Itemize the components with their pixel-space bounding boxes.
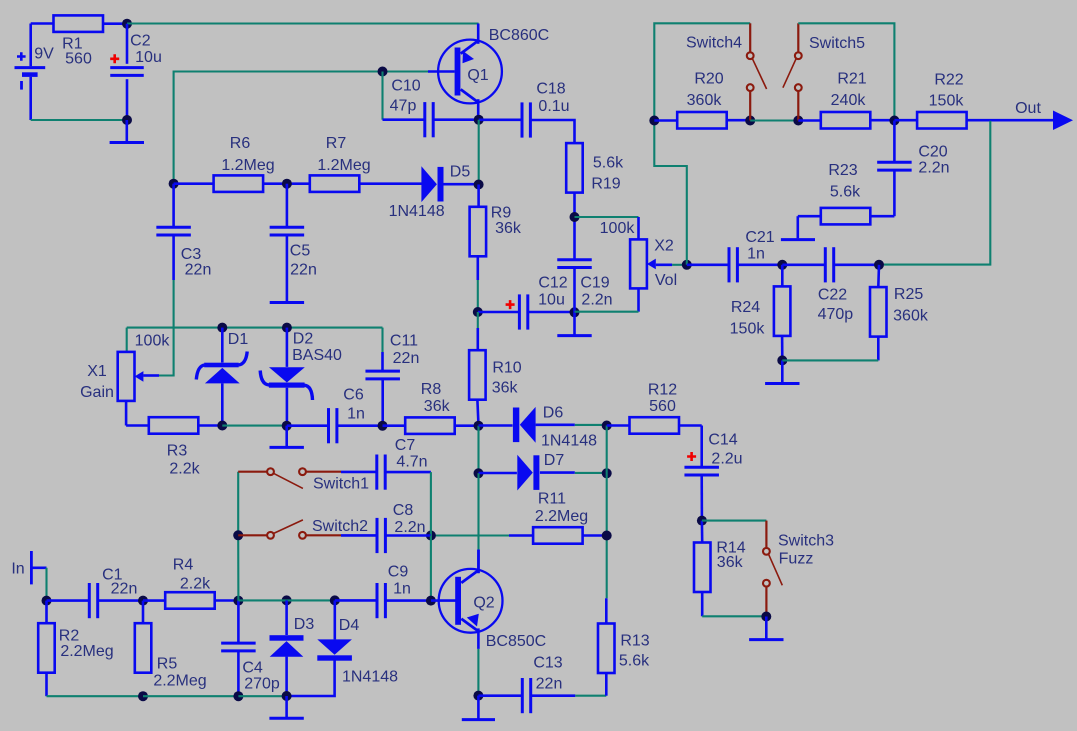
wire R9 to C12 node	[476, 255, 479, 312]
node C2-bottom junction	[122, 115, 132, 125]
wire supply rail to Q1 emitter	[127, 22, 479, 24]
svg-text:R20: R20	[694, 71, 723, 88]
svg-text:150k: 150k	[929, 93, 965, 110]
node D6/R12 junction	[602, 421, 612, 431]
wire node to R21	[798, 119, 821, 122]
resistor R25	[870, 265, 929, 337]
resistor R14	[694, 521, 746, 592]
wire R12 to C14	[679, 426, 702, 468]
ground under D3	[269, 696, 303, 718]
svg-text:C12: C12	[538, 275, 567, 292]
node R9/R10/C12 junction	[473, 307, 483, 317]
wire battery top to R1	[31, 22, 54, 25]
svg-text:R22: R22	[934, 71, 963, 88]
svg-text:2.2Meg: 2.2Meg	[535, 508, 588, 525]
svg-text:Out: Out	[1015, 100, 1041, 117]
wire R4 to C4 node	[215, 599, 238, 602]
node D7-left junction	[474, 468, 484, 478]
svg-text:Switch4: Switch4	[686, 35, 742, 52]
wire C22 to R25 node	[834, 263, 879, 266]
wire R3 to D1 node	[199, 424, 223, 427]
svg-text:R6: R6	[230, 135, 251, 152]
svg-text:Vol: Vol	[655, 272, 677, 289]
wire D6-node down	[477, 426, 479, 474]
ground under Switch3	[749, 617, 783, 640]
capacitor C2	[110, 24, 162, 120]
capacitor C7	[377, 437, 428, 490]
node R19/C19 junction	[570, 212, 580, 222]
wire node to R20	[654, 119, 677, 122]
wire to C12	[478, 311, 520, 314]
svg-text:2.2k: 2.2k	[169, 461, 200, 478]
svg-text:1N4148: 1N4148	[541, 433, 597, 450]
node D2-bottom junction	[282, 421, 292, 431]
wire R21 to out node	[870, 119, 894, 122]
wire rail C4 to D3	[238, 695, 286, 697]
svg-text:360k: 360k	[893, 307, 929, 324]
wire to C10 left plate	[383, 118, 425, 121]
wire R1 to node C2 top	[103, 22, 127, 25]
svg-text:X1: X1	[87, 363, 107, 380]
svg-text:100k: 100k	[135, 333, 171, 350]
svg-text:C20: C20	[918, 144, 947, 161]
resistor R19	[566, 143, 624, 193]
node In/C1/R2 junction	[42, 596, 52, 606]
svg-text:R25: R25	[894, 286, 923, 303]
svg-text:470p: 470p	[818, 306, 854, 323]
svg-text:240k: 240k	[831, 92, 867, 109]
diode D3 1N4148	[270, 600, 315, 696]
svg-text:2.2Meg: 2.2Meg	[153, 673, 206, 690]
node Switch5-bottom junction	[793, 116, 803, 126]
svg-text:10u: 10u	[538, 292, 565, 309]
svg-text:BC850C: BC850C	[486, 633, 546, 650]
resistor R12	[607, 382, 679, 434]
wire R8 to D6 node	[455, 424, 479, 427]
capacitor C6	[329, 387, 365, 444]
switch Switch2	[238, 518, 368, 539]
wire R7 to D5	[359, 182, 421, 185]
svg-text:C21: C21	[745, 229, 774, 246]
wire R20 to switch node	[727, 119, 751, 122]
resistor R23	[821, 162, 871, 224]
wire switch1 to C7	[341, 471, 376, 474]
resistor R7	[310, 135, 371, 192]
node Switch4-bottom junction	[745, 116, 755, 126]
wire D5 to node	[444, 183, 479, 186]
diode D7 1N4148	[479, 452, 575, 491]
node C1/R4/R5 junction	[138, 596, 148, 606]
svg-text:2.2u: 2.2u	[711, 451, 742, 468]
wire D1 node to D2 node	[222, 425, 286, 427]
capacitor C19	[557, 217, 612, 312]
svg-text:Fuzz: Fuzz	[779, 551, 814, 568]
svg-text:X2: X2	[654, 238, 674, 255]
ground under C19 node	[557, 312, 591, 335]
svg-text:22n: 22n	[185, 262, 212, 279]
resistor R4	[143, 557, 215, 609]
wire R14 bottom to switch3 node	[702, 592, 766, 617]
svg-text:R19: R19	[591, 176, 620, 193]
svg-text:D6: D6	[543, 405, 564, 422]
svg-text:BAS40: BAS40	[292, 347, 342, 364]
capacitor C12	[519, 275, 567, 330]
svg-text:360k: 360k	[687, 92, 723, 109]
node Q2-emitter junction	[473, 691, 483, 701]
svg-text:5.6k: 5.6k	[593, 155, 624, 172]
node X2 wiper junction	[682, 260, 692, 270]
switch Switch1	[238, 468, 369, 492]
svg-text:36k: 36k	[424, 398, 451, 415]
capacitor C1	[89, 567, 137, 619]
resistor R22	[894, 71, 966, 128]
capacitor C8	[377, 502, 426, 553]
svg-text:R8: R8	[421, 381, 442, 398]
node C19-bottom junction	[570, 307, 580, 317]
node C22/R25 junction	[874, 260, 884, 270]
wire C1 to R4 node	[98, 599, 143, 602]
wire Out to feedback net	[884, 121, 990, 265]
svg-text:36k: 36k	[492, 380, 519, 397]
C14 polarity +	[687, 452, 696, 461]
wire node to C1	[47, 599, 89, 602]
svg-text:1n: 1n	[347, 406, 365, 423]
potentiometer X2 100k Vol	[600, 220, 677, 289]
schottky diode D2 BAS40	[260, 328, 342, 426]
wire D4 node to C9	[335, 599, 377, 602]
svg-text:5.6k: 5.6k	[830, 184, 861, 201]
wire R2 to bottom rail	[47, 673, 144, 696]
node C2-top junction	[122, 19, 132, 29]
wire C3 to X1 wiper	[159, 235, 174, 376]
wire C8 to node	[386, 534, 431, 537]
wire switch5 top rail	[798, 23, 894, 120]
svg-text:Switch2: Switch2	[312, 518, 368, 535]
wire In down to C1 node	[45, 568, 47, 601]
node Switch2-left junction	[233, 530, 243, 540]
node D1-bottom junction	[217, 421, 227, 431]
input port In	[11, 551, 46, 584]
wire vol node to C21	[687, 263, 729, 266]
resistor R13	[598, 598, 650, 695]
svg-text:R5: R5	[157, 656, 178, 673]
svg-text:Switch1: Switch1	[313, 476, 369, 493]
svg-text:C8: C8	[393, 502, 414, 519]
ground under C5	[270, 235, 304, 303]
capacitor C14	[684, 432, 742, 476]
wire C18 to R19	[530, 120, 574, 143]
capacitor C9	[377, 564, 411, 619]
ground under R23	[781, 238, 815, 241]
wire D6 to R12 node	[575, 424, 607, 426]
svg-text:C6: C6	[343, 387, 364, 404]
node base-net / R6 junction	[169, 179, 179, 189]
svg-text:2.2Meg: 2.2Meg	[60, 643, 113, 660]
node R4/C4 junction	[233, 596, 243, 606]
C2 polarity +	[110, 54, 119, 63]
wire switch4 to switch5 node	[750, 119, 798, 121]
node C14/R14 junction	[697, 516, 707, 526]
svg-text:150k: 150k	[730, 321, 766, 338]
node C21/R24/C22 junction	[777, 260, 787, 270]
wire R20 node loop	[654, 23, 750, 120]
wire X2 wiper to vol node	[656, 263, 687, 266]
wire R23 to ground	[798, 216, 821, 238]
svg-text:1.2Meg: 1.2Meg	[317, 157, 370, 174]
svg-text:1n: 1n	[393, 581, 411, 598]
wire R24 to ground node	[781, 335, 784, 360]
potentiometer X1 100k Gain	[80, 328, 170, 401]
node Q1 collector junction	[474, 115, 484, 125]
transistor Q1 BC860C	[428, 24, 549, 120]
wire vol node up to R20 node	[654, 121, 687, 265]
wire R6 to R7	[263, 182, 310, 185]
ground under R24	[765, 360, 799, 383]
node D3-top junction	[282, 595, 292, 605]
wire C21 to R24 node	[738, 263, 783, 266]
svg-text:2.2k: 2.2k	[180, 576, 211, 593]
diode D6 1N4148	[479, 405, 598, 450]
capacitor C18	[522, 81, 570, 138]
svg-text:C5: C5	[290, 243, 311, 260]
svg-text:R13: R13	[620, 633, 649, 650]
resistor R24	[730, 265, 791, 338]
wire node to C22	[782, 263, 825, 266]
svg-text:C4: C4	[242, 660, 263, 677]
svg-text:BC860C: BC860C	[489, 27, 549, 44]
svg-text:560: 560	[649, 398, 676, 415]
svg-text:R23: R23	[828, 162, 857, 179]
resistor R5	[135, 601, 207, 690]
resistor R20	[677, 71, 727, 129]
resistor R10	[469, 312, 522, 426]
wire Q1 collector to C18	[479, 119, 523, 122]
svg-text:R21: R21	[837, 71, 866, 88]
wire R11 left green	[431, 534, 509, 536]
svg-text:R12: R12	[648, 382, 677, 399]
svg-text:270p: 270p	[244, 676, 280, 693]
wire battery minus to C2 bottom	[31, 119, 127, 121]
node C4-bottom junction	[233, 691, 243, 701]
wire D-node rail	[127, 327, 383, 329]
wire collector node down to D5 node	[478, 120, 480, 185]
wire C10 to Q1 collector node	[433, 118, 479, 121]
node D7-right junction	[602, 468, 612, 478]
svg-text:C14: C14	[708, 432, 737, 449]
svg-text:100k: 100k	[600, 220, 636, 237]
transistor Q2 BC850C	[431, 550, 546, 650]
wire switch2 to C8	[341, 534, 376, 537]
wire base net from C3 node to Q1 base	[174, 72, 428, 184]
wire R19 node to X2 top	[575, 217, 639, 240]
svg-text:4.7n: 4.7n	[396, 454, 427, 471]
wire C9 to Q2 base node	[386, 599, 431, 602]
svg-text:Q2: Q2	[473, 595, 494, 612]
svg-text:R10: R10	[492, 360, 521, 377]
wire D3 node to D4 node	[287, 599, 335, 601]
node R21/R22/C20 junction	[889, 116, 899, 126]
svg-text:R7: R7	[326, 135, 347, 152]
resistor R6	[214, 135, 275, 192]
node D5/R9 junction	[474, 180, 484, 190]
wire node to R6	[174, 182, 214, 185]
svg-text:Q1: Q1	[467, 67, 488, 84]
wire X1 bottom to R3	[126, 401, 149, 426]
svg-text:D7: D7	[544, 452, 565, 469]
svg-text:Switch5: Switch5	[809, 35, 865, 52]
wire C14 node to switch3	[702, 521, 767, 548]
battery B1 9V	[15, 24, 55, 121]
svg-text:560: 560	[65, 51, 92, 68]
resistor R8	[383, 381, 455, 434]
node D3-bottom junction	[282, 691, 292, 701]
capacitor C4	[221, 601, 280, 697]
ground under Q2	[462, 696, 495, 720]
svg-text:Gain: Gain	[80, 384, 114, 401]
switch Switch3 Fuzz	[763, 533, 834, 617]
svg-text:36k: 36k	[495, 220, 522, 237]
node Switch3-bottom junction	[761, 612, 771, 622]
capacitor C22	[818, 247, 854, 323]
svg-text:C9: C9	[388, 564, 409, 581]
svg-text:22n: 22n	[536, 676, 563, 693]
wire C20 to R23	[870, 170, 894, 216]
wire D7 to right node	[575, 472, 607, 474]
wire Q2 emitter down	[477, 649, 479, 696]
svg-text:0.1u: 0.1u	[538, 98, 569, 115]
svg-text:1N4148: 1N4148	[342, 669, 398, 686]
wire C7 to green column	[386, 472, 431, 535]
wire C13 to R13	[531, 694, 607, 697]
resistor R11	[509, 491, 607, 544]
svg-text:D5: D5	[450, 164, 471, 181]
wire X2 bottom to C19 node	[575, 288, 639, 311]
node D1-top junction	[217, 323, 227, 333]
wire D2 node to C6	[287, 424, 329, 427]
svg-text:C11: C11	[390, 333, 418, 350]
svg-text:C10: C10	[391, 78, 420, 95]
svg-text:5.6k: 5.6k	[619, 653, 650, 670]
svg-text:10u: 10u	[135, 49, 162, 66]
node R11-right junction	[602, 531, 612, 541]
svg-text:R3: R3	[167, 442, 188, 459]
node C10 tap on base wire	[378, 67, 388, 77]
svg-text:C22: C22	[818, 287, 847, 304]
switch Switch4	[686, 23, 767, 120]
wire R22 to Out	[967, 119, 1054, 122]
wire C12 to C19 node	[528, 311, 575, 314]
wire green column to Q2 base node	[430, 536, 432, 601]
ground under D2 node	[270, 426, 304, 448]
zener diode D1	[196, 328, 248, 426]
C12 polarity +	[506, 300, 515, 309]
capacitor C10	[390, 78, 434, 138]
svg-text:D3: D3	[294, 616, 315, 633]
svg-text:1n: 1n	[747, 246, 765, 263]
svg-text:C3: C3	[181, 246, 202, 263]
svg-text:1.2Meg: 1.2Meg	[221, 157, 274, 174]
svg-text:2.2n: 2.2n	[581, 292, 612, 309]
node C8/R11 junction	[426, 531, 436, 541]
svg-text:2.2n: 2.2n	[394, 519, 425, 536]
wire R19 to node	[573, 193, 576, 218]
resistor R1	[54, 15, 104, 67]
svg-text:D2: D2	[293, 331, 314, 348]
svg-text:R11: R11	[538, 491, 566, 508]
svg-text:R24: R24	[731, 299, 760, 316]
svg-text:2.2n: 2.2n	[918, 160, 949, 177]
node R24-bottom junction	[777, 355, 787, 365]
svg-text:22n: 22n	[290, 262, 317, 279]
diode D5 1N4148	[389, 164, 471, 221]
wire C14 to R14 node	[700, 475, 703, 521]
output port Out	[1015, 100, 1073, 130]
capacitor C11	[365, 328, 419, 426]
wire C10 tap down	[381, 72, 383, 120]
wire rail R5 to C4	[143, 695, 238, 697]
ground under C2	[110, 120, 144, 143]
resistor R21	[821, 71, 871, 129]
svg-text:R9: R9	[491, 205, 512, 222]
wire C4 node to D3 node	[238, 599, 286, 601]
svg-text:D4: D4	[339, 617, 360, 634]
node C6/C11/R8 junction	[378, 421, 388, 431]
wire switch column	[237, 472, 239, 601]
wire right green column	[606, 426, 608, 599]
svg-text:R4: R4	[173, 557, 194, 574]
wire left green column to Q2 collector	[477, 473, 479, 573]
node D4-top junction	[330, 595, 340, 605]
svg-text:C2: C2	[130, 33, 151, 50]
capacitor C5	[270, 184, 317, 279]
svg-text:9V: 9V	[34, 46, 54, 63]
svg-text:C13: C13	[533, 655, 562, 672]
svg-text:C19: C19	[580, 275, 609, 292]
wire X1 wiper	[143, 374, 159, 377]
svg-text:In: In	[11, 561, 24, 578]
node R5-bottom junction	[138, 691, 148, 701]
svg-text:Switch3: Switch3	[778, 533, 834, 550]
capacitor C13	[522, 655, 562, 714]
svg-text:22n: 22n	[111, 581, 138, 598]
wire Q2 emitter node to C13	[478, 694, 522, 697]
node R20-left junction	[649, 116, 659, 126]
node R8/R10/D6 junction	[474, 421, 484, 431]
resistor R3	[149, 417, 201, 477]
resistor R9	[470, 185, 522, 257]
svg-text:36k: 36k	[717, 554, 744, 571]
wire C6 to C11 node	[337, 424, 383, 427]
svg-text:C18: C18	[536, 81, 565, 98]
diode D4 1N4148	[291, 600, 398, 696]
node D2-top junction	[282, 323, 292, 333]
svg-text:22n: 22n	[393, 350, 420, 367]
svg-text:47p: 47p	[390, 98, 417, 115]
capacitor C3	[156, 184, 211, 279]
capacitor C20	[877, 121, 949, 177]
svg-text:R2: R2	[59, 628, 80, 645]
wire R25 bottom to R24 node	[782, 336, 878, 360]
switch Switch5	[783, 23, 865, 120]
svg-text:1N4148: 1N4148	[389, 203, 445, 220]
svg-text:D1: D1	[228, 331, 249, 348]
capacitor C21	[729, 229, 775, 282]
resistor R2	[38, 601, 113, 673]
node C9/Q2-base junction	[426, 596, 436, 606]
svg-text:C7: C7	[395, 437, 416, 454]
node R6-R7 junction	[282, 179, 292, 189]
